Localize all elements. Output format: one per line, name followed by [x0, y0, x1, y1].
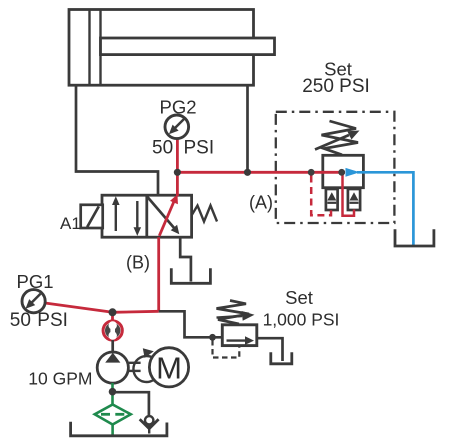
red main pressure line horizontal	[177, 171, 345, 174]
svg-text:10 GPM: 10 GPM	[28, 369, 92, 389]
filter	[95, 405, 131, 425]
label Set 250 PSI	[302, 59, 370, 97]
sequence valve adjust arrow	[315, 131, 360, 150]
wire drain branch	[113, 392, 149, 417]
svg-text:PG1: PG1	[16, 271, 53, 292]
check valve red circle	[103, 321, 122, 340]
wire check valve to pump	[111, 340, 114, 353]
relief pilot dashed	[213, 340, 240, 358]
drain tank under valve	[171, 268, 210, 283]
gauge PG2	[165, 115, 189, 139]
motor M	[149, 348, 188, 387]
check valve square left	[326, 189, 338, 210]
node pilot tee left	[308, 169, 315, 176]
svg-text:PG2: PG2	[159, 97, 196, 118]
svg-text:1,000 PSI: 1,000 PSI	[263, 310, 340, 330]
wire valve to drain tank	[180, 237, 191, 281]
sequence valve U2 body	[323, 155, 364, 187]
node pump tee	[109, 308, 117, 316]
drain check valve	[140, 416, 159, 433]
node pilot tee center	[338, 169, 345, 176]
solenoid A1	[81, 205, 103, 228]
wire rod-end down	[246, 85, 249, 172]
blue line to tank	[357, 172, 413, 245]
node cylinder rod-end junction	[244, 169, 251, 176]
sequence valve spring	[322, 121, 359, 155]
cylinder body	[69, 10, 254, 86]
svg-text:Set: Set	[285, 287, 313, 308]
svg-text:A1: A1	[60, 214, 81, 233]
green suction line	[111, 383, 114, 405]
wire cap-end to valve port A	[76, 85, 158, 196]
label 50 PSI (PG1)	[10, 310, 68, 331]
red line pump tee	[113, 311, 159, 312]
label Set 1,000 PSI	[263, 287, 340, 330]
pump shaft	[129, 363, 141, 371]
green filter to tank	[111, 425, 114, 436]
dash-dot enclosure (A)	[276, 112, 395, 223]
red flow path through valve	[159, 194, 178, 236]
rotation arrow	[133, 348, 153, 382]
valve left-position up arrow	[112, 196, 120, 231]
red pump riser	[157, 237, 160, 311]
red pilot line left (dashed)	[311, 176, 331, 216]
svg-text:(A): (A)	[249, 193, 273, 213]
relief valve adjust arrow	[217, 311, 255, 321]
tank right	[395, 229, 434, 246]
relief valve body	[222, 325, 256, 346]
pump P1	[97, 352, 128, 383]
wire tee to relief valve	[159, 311, 223, 337]
check valve square right	[348, 189, 360, 210]
valve crossed path black arrow	[148, 197, 180, 234]
svg-text:(B): (B)	[126, 253, 150, 273]
red pilot line center	[343, 174, 355, 216]
valve return spring	[192, 206, 217, 222]
node PG2 junction	[174, 169, 181, 176]
svg-text:PSI: PSI	[37, 310, 68, 331]
cylinder piston	[90, 10, 101, 86]
node relief pilot tee	[209, 334, 216, 341]
blue outlet arrow	[346, 168, 360, 177]
reservoir tank	[71, 422, 167, 436]
svg-text:50: 50	[10, 310, 31, 331]
svg-text:50: 50	[152, 138, 173, 159]
cylinder rod	[101, 38, 275, 55]
tank relief	[271, 352, 292, 364]
red PG1 line	[45, 303, 113, 312]
red stub to check valve	[111, 312, 114, 321]
red gauge stub PG2	[176, 139, 179, 172]
red junction to valve	[176, 172, 179, 196]
node suction tee	[109, 388, 117, 396]
label 50 PSI (PG2)	[152, 138, 214, 159]
valve left-position down arrow	[134, 201, 142, 236]
relief valve spring	[217, 301, 250, 325]
directional valve body	[102, 195, 192, 237]
svg-text:PSI: PSI	[184, 138, 215, 159]
svg-text:250 PSI: 250 PSI	[302, 76, 370, 97]
svg-text:M: M	[156, 351, 182, 386]
gauge PG1	[22, 290, 45, 313]
wire relief to tank	[257, 338, 283, 361]
